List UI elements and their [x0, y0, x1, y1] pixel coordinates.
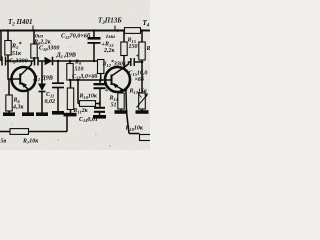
svg-text:R112к: R112к [73, 108, 89, 114]
svg-text:R: R [146, 46, 151, 52]
wire T2 collector [31, 61, 33, 65]
wire left edge vertical [0, 31, 2, 62]
svg-text:0,02: 0,02 [45, 99, 56, 105]
resistor R16 [141, 31, 143, 43]
ground under D2 [36, 112, 48, 116]
wire top supply rail right segment [141, 30, 151, 32]
resistor R11 [77, 80, 79, 104]
svg-text:5в: 5в [1, 139, 7, 145]
ground under C11 [52, 111, 64, 115]
diode D2 [41, 61, 43, 84]
resistor R7 [10, 129, 29, 135]
svg-text:+: + [105, 87, 109, 94]
capacitor C9 [1, 57, 3, 66]
resistor R6 [8, 79, 10, 95]
wire T3 emitter [126, 92, 129, 134]
transistor T3 [105, 67, 130, 92]
ground under C14 [93, 115, 106, 119]
node rail-C12 junction [93, 29, 96, 32]
node rail-R13 junction with tick [116, 29, 119, 32]
svg-text:51: 51 [111, 103, 117, 109]
wire bottom left [0, 131, 10, 133]
svg-text:R1810к: R1810к [125, 126, 144, 132]
capacitor C11 [57, 61, 59, 83]
resistor R18 [129, 133, 140, 135]
node detector junction [57, 60, 60, 63]
svg-text:R15: R15 [127, 38, 137, 44]
wire signal base segment [6, 60, 34, 62]
svg-text:R710к: R710к [22, 139, 39, 145]
svg-text:×6б: ×6б [135, 76, 145, 83]
resistor R9 [69, 61, 71, 64]
svg-text:Д1 Д9В: Д1 Д9В [56, 52, 76, 59]
ground under R17 [136, 110, 149, 114]
svg-text:R14: R14 [109, 96, 119, 102]
resistor R15 (on rail) [125, 28, 141, 34]
ground under R14 [115, 110, 128, 114]
capacitor C14 [94, 107, 105, 109]
svg-text:С11: С11 [46, 92, 54, 98]
svg-text:510: 510 [75, 67, 84, 73]
resistor R12* [98, 60, 104, 74]
transistor T2 [12, 67, 36, 91]
potentiometer R17 [141, 62, 143, 93]
svg-text:150: 150 [129, 44, 138, 50]
capacitor C15 [130, 58, 132, 66]
svg-text:+: + [136, 53, 140, 60]
resistor R14 [121, 90, 126, 93]
scan speckles [4, 47, 144, 147]
svg-text:С93300: С93300 [9, 58, 28, 65]
wire base lead T2 [8, 61, 20, 79]
svg-text:R1010к: R1010к [79, 94, 98, 100]
svg-text:2,2к: 2,2к [103, 48, 116, 54]
capacitor C13 [99, 80, 101, 83]
ground under T2 emitter [22, 112, 34, 116]
svg-text:4,3к: 4,3к [12, 105, 25, 111]
capacitor C10 [34, 57, 36, 66]
svg-text:Д2 Д9В: Д2 Д9В [33, 75, 53, 82]
svg-text:R6: R6 [13, 98, 21, 104]
svg-text:+: + [101, 41, 105, 48]
svg-text:R9: R9 [74, 60, 82, 66]
node rail-R8 junction with tick [33, 29, 36, 32]
capacitor C12 [93, 31, 95, 38]
resistor R8 [33, 31, 35, 45]
svg-text:51к: 51к [12, 51, 22, 57]
wire node N1 [70, 79, 111, 81]
node rail-R16 junction [141, 29, 144, 32]
ground under R6 [3, 112, 15, 116]
svg-text:С140,01: С140,01 [79, 117, 98, 123]
svg-text:1ма: 1ма [106, 34, 116, 40]
resistor R5* [7, 31, 9, 41]
svg-text:С133,0×6б: С133,0×6б [72, 73, 98, 80]
diode D1 [44, 60, 45, 62]
resistor R10 [70, 80, 72, 88]
resistor R13 [123, 31, 125, 43]
svg-text:R13: R13 [104, 42, 114, 48]
wire T2 emitter [27, 89, 29, 114]
wire corner up [66, 116, 68, 132]
wire T3 collector [126, 62, 131, 66]
node rail-R5 junction [7, 29, 10, 32]
ground under R10 [64, 113, 77, 117]
svg-text:R1715к: R1715к [129, 89, 148, 95]
wire top supply rail left segment [0, 30, 125, 32]
svg-text:С1510,0: С1510,0 [129, 71, 148, 77]
